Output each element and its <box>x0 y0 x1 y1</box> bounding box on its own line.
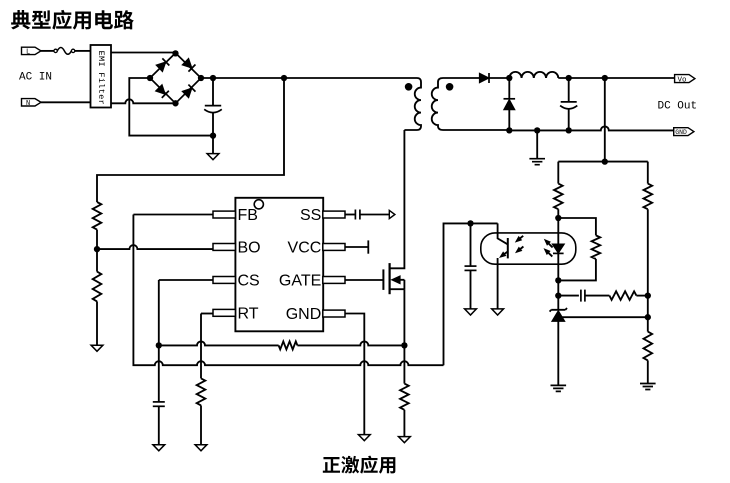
ground (Rsense) <box>399 437 411 443</box>
wire Vo sense vertical <box>604 78 606 162</box>
VCC supply stub <box>367 240 369 253</box>
node opto cap tap <box>467 220 473 226</box>
ground (opto emitter) <box>492 309 504 315</box>
wire source to Rsense <box>403 345 405 383</box>
wire C7 to connector <box>360 214 389 216</box>
wire to R5 <box>557 162 559 184</box>
svg-text:L: L <box>26 48 30 56</box>
wire bulk- to ground <box>212 136 214 154</box>
wire SS pin <box>345 214 355 216</box>
wire divider top <box>647 162 649 184</box>
bridge rectifier BD1 outline <box>150 53 201 103</box>
wire FB net to opto collector <box>444 223 498 365</box>
svg-text:AC IN: AC IN <box>19 72 52 84</box>
node LED cathode <box>555 277 561 283</box>
node after L1 <box>566 75 572 81</box>
pin pad CS <box>213 277 235 284</box>
primary polarity dot <box>405 83 413 91</box>
caption text 正激应用 <box>323 457 340 473</box>
node Vo sense tap <box>602 75 608 81</box>
transformer T1 secondary <box>432 78 510 130</box>
wire GND pin <box>345 314 364 435</box>
wire secondary top to rectifier <box>443 77 479 79</box>
IC U1 body <box>235 198 323 331</box>
earth ground (secondary) <box>529 159 545 165</box>
resistor R7 (comp) <box>609 291 636 300</box>
node bridge right <box>198 75 204 81</box>
wire fuse to EMI filter <box>75 50 91 52</box>
wire R7 to divider <box>636 295 647 297</box>
node CS junction <box>156 342 162 348</box>
resistor R3 (RT timing) <box>197 378 206 405</box>
wire R3 to ground <box>200 405 202 444</box>
ground (BO divider) <box>91 345 103 351</box>
node bulk+ on rail <box>210 75 216 81</box>
ground (IC GND) <box>358 435 370 441</box>
resistor R10 (CS series) <box>279 341 298 349</box>
terminal N <box>22 99 42 106</box>
earth ground (divider) <box>640 384 656 390</box>
wire GATE to MOSFET <box>345 279 383 281</box>
node C2- on gnd rail <box>566 127 572 133</box>
wire R2 to ground <box>96 301 98 345</box>
svg-text:GATE: GATE <box>279 273 321 290</box>
wire RT pin <box>201 313 213 315</box>
node bridge left <box>147 75 153 81</box>
wire R1 to R2 <box>96 230 98 272</box>
earth ground (TL431) <box>551 385 567 391</box>
capacitor C3 (CS filter) <box>153 401 165 403</box>
wire N to EMI filter <box>41 101 91 103</box>
wire FB net vertical + bottom (hops) <box>133 215 443 366</box>
svg-text:GND: GND <box>286 306 322 323</box>
svg-text:DC Out: DC Out <box>658 101 698 113</box>
node freewheel anode <box>506 127 512 133</box>
wire BO feed <box>97 78 284 202</box>
bridge diode D2 (top-right) <box>182 58 196 72</box>
svg-text:VCC: VCC <box>288 240 322 257</box>
secondary polarity dot <box>446 83 454 91</box>
wire to secondary earth <box>536 130 538 158</box>
svg-text:RT: RT <box>238 305 259 322</box>
node comp to divider <box>645 292 651 298</box>
ground (C3) <box>153 445 165 451</box>
pin pad RT <box>213 309 235 316</box>
resistor R5 (LED bias) <box>554 184 563 210</box>
node feedback top <box>602 158 608 164</box>
wire BO pin (hop over FB net) <box>97 245 213 249</box>
wire CS pin <box>159 279 213 281</box>
wire RT net vertical <box>200 314 202 379</box>
svg-text:CS: CS <box>238 273 260 290</box>
opto LED <box>557 218 559 244</box>
svg-text:FB: FB <box>238 207 258 224</box>
MOSFET Q1 <box>382 269 384 290</box>
bridge diode D1 (top-left) <box>156 58 170 72</box>
svg-text:EMI Filter: EMI Filter <box>96 51 106 106</box>
bridge diode D4 (bottom-right) <box>182 85 196 99</box>
capacitor C2 (output) <box>568 78 570 102</box>
wire bridge DC- return <box>129 78 213 136</box>
wire EMI to bridge bottom (hop over DC- return) <box>111 99 175 103</box>
resistor R1 (BO upper) <box>93 202 102 230</box>
node source-CS junction <box>401 342 407 348</box>
svg-text:SS: SS <box>300 207 321 224</box>
wire FB pin <box>133 214 213 216</box>
ground (R3) <box>195 445 207 451</box>
resistor R9 (divider lower) <box>644 332 653 361</box>
terminal GND <box>674 128 694 136</box>
EMI filter block <box>91 45 112 108</box>
fuse F1 <box>54 49 57 52</box>
svg-text:GND: GND <box>675 129 687 136</box>
capacitor C1 (bulk) <box>205 105 221 107</box>
ground (bulk) <box>207 154 219 160</box>
diode D5 (output rectifier) <box>479 73 489 83</box>
wire Rsense to ground <box>403 410 405 437</box>
svg-text:BO: BO <box>238 240 261 257</box>
terminal Vo <box>675 75 695 83</box>
pin pad VCC <box>323 244 345 251</box>
title text 典型应用电路 <box>11 10 30 29</box>
resistor R4 (current sense) <box>400 384 409 410</box>
transformer T1 primary <box>404 78 421 130</box>
node LED anode <box>555 215 561 221</box>
connector arrow (SS) <box>389 210 395 218</box>
optocoupler U2 body <box>481 233 576 264</box>
wire CS rail (hops) <box>159 341 279 345</box>
svg-text:Vo: Vo <box>678 76 688 84</box>
wire bridge+ to bulk cap <box>212 78 214 106</box>
wire R9 to earth <box>647 360 649 383</box>
shunt regulator U3 (TL431) <box>557 296 559 310</box>
node bridge bottom <box>172 100 178 106</box>
node comp tap <box>555 292 561 298</box>
wire LED cathode down <box>557 280 559 295</box>
pin pad GATE <box>323 277 345 284</box>
node rectifier out <box>506 75 512 81</box>
wire TL431 ref <box>558 316 648 318</box>
inductor L1 <box>509 72 558 78</box>
pin pad BO <box>213 244 235 251</box>
pin pad SS <box>323 211 345 218</box>
wire LED parallel branch <box>558 218 596 235</box>
node bridge top <box>172 50 178 56</box>
wire CS net vertical <box>158 280 160 402</box>
svg-text:N: N <box>26 100 30 108</box>
capacitor C5 (FB filter) <box>470 223 472 266</box>
wire VCC pin <box>345 246 368 248</box>
wire output GND rail (hop over sense wire) <box>509 126 673 130</box>
wire HV rail <box>201 77 417 79</box>
node BO divider mid <box>94 246 100 252</box>
terminal L <box>22 47 42 54</box>
wire primary bottom to MOSFET drain <box>390 130 405 268</box>
wire CS rail right (hop) <box>297 341 404 345</box>
pin pad GND <box>323 310 345 317</box>
ground (C5) <box>465 309 477 315</box>
IC pin-1 marker <box>254 200 263 209</box>
wire EMI to bridge top <box>111 52 176 55</box>
node secondary gnd tap <box>534 127 540 133</box>
wire L to fuse <box>41 50 54 52</box>
wire Vo rail <box>558 77 674 79</box>
wire divider mid <box>647 209 649 331</box>
diode D6 (freewheel) <box>508 78 510 99</box>
resistor R6 (LED parallel) <box>592 235 601 259</box>
resistor R2 (BO lower) <box>93 272 102 302</box>
wire Q1 source down <box>403 289 405 345</box>
resistor R8 (divider upper) <box>644 184 653 210</box>
opto transistor light arrows <box>518 236 523 240</box>
pin pad FB <box>213 211 235 218</box>
bridge diode D3 (bottom-left) <box>155 84 169 98</box>
wire R6 bottom <box>558 259 596 280</box>
node ref junction <box>645 314 651 320</box>
capacitor C6 (comp) <box>558 295 579 297</box>
node bulk- junction <box>210 132 216 138</box>
opto phototransistor <box>498 223 508 244</box>
wire feedback top <box>558 161 648 163</box>
opto LED light arrows <box>547 242 553 248</box>
wire R5 to LED <box>557 209 559 218</box>
capacitor C7 (soft start) <box>354 210 356 220</box>
node BO feed tap <box>281 75 287 81</box>
